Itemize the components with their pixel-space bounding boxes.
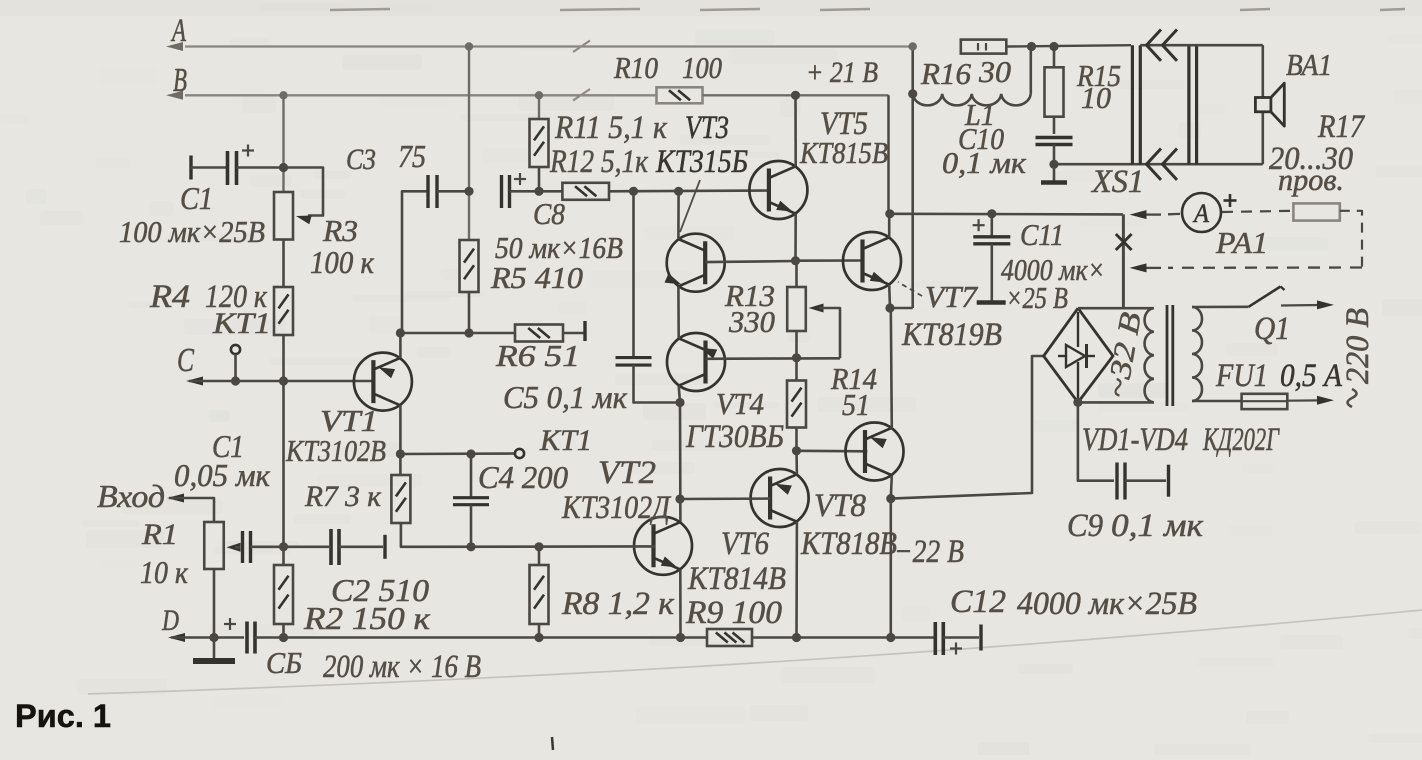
bottom -22V rail — [284, 636, 708, 639]
wire C line to VT1 base — [189, 380, 374, 383]
junction VT2 emitter rail — [676, 633, 685, 642]
svg-text:РА1: РА1 — [1215, 225, 1268, 260]
junction VT8 collector — [886, 494, 895, 503]
arrow R1 wiper — [227, 543, 241, 552]
junction line A drop x469 — [465, 42, 473, 50]
svg-text:0,1 мк: 0,1 мк — [1111, 508, 1204, 544]
wire input to R1 — [169, 498, 214, 522]
svg-text:С5 0,1 мк: С5 0,1 мк — [503, 379, 628, 415]
wire R2 bottom — [282, 624, 285, 638]
speaker BA1 horn — [1271, 83, 1284, 126]
plus of C8 — [514, 178, 526, 180]
junction bridge bottom — [1073, 398, 1082, 407]
wire -22 drop to rail — [889, 499, 892, 638]
wire C3 left drop — [402, 191, 428, 333]
wire VT6 emitter up — [795, 451, 798, 475]
pointer dash VT7 — [898, 282, 922, 296]
capacitor C3 plates — [426, 175, 429, 208]
svg-text:R2 150 к: R2 150 к — [303, 600, 431, 636]
svg-text:4000 мк×25В: 4000 мк×25В — [1017, 586, 1197, 622]
svg-text:R8 1,2 к: R8 1,2 к — [561, 586, 675, 622]
svg-text:VТ6: VТ6 — [721, 526, 769, 562]
plus PA1 — [1224, 199, 1237, 202]
potentiometer R1 box — [204, 522, 224, 569]
svg-text:С3: С3 — [346, 143, 376, 176]
resistor R9 box — [707, 629, 752, 646]
svg-text:+ 21 В: + 21 В — [806, 56, 878, 89]
wire primary top to switch — [1192, 305, 1249, 308]
wire R1 bottom — [213, 569, 216, 638]
arrow PA1 upper — [1130, 210, 1147, 219]
capacitor C1' 0,05 plates — [241, 531, 244, 563]
svg-text:100 к: 100 к — [310, 244, 375, 280]
junction C5/VT4 node — [675, 398, 684, 407]
terminal KT1 left circle — [231, 345, 240, 354]
capacitor C2 plates — [329, 529, 333, 565]
svg-text:КТ818В: КТ818В — [800, 526, 897, 562]
R16 inner ticks — [977, 43, 979, 51]
wire VT7 collector up — [888, 214, 891, 238]
junction x678 top — [674, 187, 683, 196]
wire secondary bottom — [1078, 401, 1154, 404]
junction C1/R3 node — [279, 163, 288, 172]
resistor R7 box — [391, 475, 410, 523]
wire VT8 emitter up — [891, 308, 892, 428]
wire R5 to emitter line — [468, 292, 471, 333]
svg-text:КТ3102В: КТ3102В — [285, 433, 386, 468]
svg-text:R9 100: R9 100 — [685, 595, 783, 631]
wire C10 bottom — [1053, 145, 1056, 165]
wire R7 to corner — [401, 523, 420, 547]
inductor L1 coil — [913, 94, 1031, 105]
wire VT8 collector down — [891, 475, 892, 498]
junction R13/R14/VT4base — [792, 353, 801, 362]
svg-text:R12 5,1к: R12 5,1к — [549, 144, 648, 180]
capacitor C10 plates — [1036, 136, 1073, 139]
transistor VT3 — [667, 234, 725, 292]
wire VT2 base line — [420, 545, 655, 548]
svg-text:R16: R16 — [920, 56, 972, 91]
svg-text:0,1 мк: 0,1 мк — [942, 145, 1027, 180]
svg-text:ВА1: ВА1 — [1286, 47, 1332, 82]
line B (feedback rail) — [185, 94, 656, 96]
junction VT6 base tap — [675, 494, 684, 503]
wire VT1 collector down — [399, 405, 402, 475]
svg-text:VТ2: VТ2 — [598, 455, 656, 491]
chevrons XS1 top — [1147, 30, 1162, 61]
bridge VD1-VD4 diamond — [1044, 308, 1113, 402]
junction VT1emitter/C3 — [396, 328, 405, 337]
small mark bottom center — [552, 737, 553, 750]
junction R15 top — [1049, 42, 1058, 51]
svg-text:51: 51 — [842, 387, 870, 422]
terminal bar C12 — [979, 625, 982, 651]
junction R1 bottom rail — [209, 633, 218, 642]
dashed link PA1 upper — [1168, 213, 1182, 216]
junction R8 rail — [534, 633, 543, 642]
wire C4 branch — [400, 452, 514, 455]
wire R13 wiper loop — [819, 308, 840, 358]
transistor VT1 — [354, 353, 412, 411]
wire D line — [171, 636, 244, 639]
transistor VT7 — [843, 232, 901, 290]
wire bridge bottom to C9 — [1078, 402, 1114, 480]
svg-text:R17: R17 — [1317, 109, 1365, 145]
wire VT5 emitter down — [794, 214, 797, 261]
svg-text:30: 30 — [978, 54, 1012, 89]
wire VT6 base from x680 — [680, 497, 770, 500]
svg-text:С11: С11 — [1020, 217, 1064, 252]
resistor R11 box — [530, 119, 549, 167]
capacitor SB plates — [245, 622, 249, 654]
svg-text:330: 330 — [728, 304, 775, 339]
junction C12 rail — [886, 633, 895, 642]
resistor R2 box — [274, 565, 293, 624]
resistor R6 box — [515, 325, 563, 342]
wire C5 stem — [632, 191, 635, 357]
junction VT5 collector on +21V rail — [791, 91, 800, 100]
svg-text:VТ4: VТ4 — [716, 386, 764, 421]
connector XS1 bars pair1 — [1131, 45, 1134, 164]
wire R11 bottom stub — [538, 167, 541, 191]
potentiometer R3 box — [274, 192, 293, 240]
wire VT6 collector down — [795, 522, 798, 638]
junction x283/C2 node — [279, 542, 288, 551]
resistor R17 box (dashed circuit) — [1293, 203, 1339, 220]
wire node to VT7 base — [796, 259, 863, 262]
wire VT7 emitter down — [888, 285, 891, 308]
wire +21V rail from R10 — [703, 94, 889, 96]
wire R15 to C10 — [1053, 117, 1056, 134]
transformer core bars — [1166, 305, 1169, 406]
svg-text:ГТ30ВБ: ГТ30ВБ — [685, 419, 784, 455]
transistor VT5 — [749, 161, 807, 219]
wire VT1 emitter up — [399, 333, 402, 358]
transistor VT2 — [634, 517, 692, 575]
wire R12 to VT5 base — [609, 189, 769, 192]
wire C12 right — [943, 636, 979, 639]
junction L1 tap — [908, 89, 917, 98]
svg-text:VТ8: VТ8 — [814, 488, 866, 524]
wire VT5 collector to +21V — [794, 95, 797, 166]
resistor R4 box — [274, 287, 293, 335]
junction C5 top — [629, 187, 638, 196]
wire R15 top stub — [1053, 47, 1056, 68]
wire VT8 collector to bridge minus — [891, 356, 1044, 499]
junction C11 top — [987, 209, 996, 218]
svg-text:100: 100 — [682, 50, 722, 85]
svg-text:С12: С12 — [950, 584, 1006, 620]
wire R13 top stub — [795, 261, 798, 287]
svg-text:R3: R3 — [322, 213, 358, 248]
junction VT5emitter/VT3base/R13 — [791, 256, 800, 265]
capacitor C11 stem top — [990, 214, 993, 236]
resistor R8 box — [530, 565, 549, 624]
wire C2 left — [284, 545, 332, 548]
terminal bar after R6 — [583, 321, 586, 341]
switch Q1 blade — [1249, 287, 1281, 307]
wire +21V drop to VT7 collector — [887, 95, 890, 214]
dashed link PA1 to R17 — [1222, 211, 1293, 212]
wire VT4 base line — [706, 357, 841, 360]
top edge scan smudges — [330, 9, 390, 10]
wire VT4 collector down — [679, 386, 680, 403]
wire column xA (line A down to output) — [911, 47, 914, 309]
scan crease curve bottom — [88, 610, 1422, 694]
svg-text:КТ815В: КТ815В — [799, 135, 888, 170]
junction C10 bottom — [1049, 160, 1058, 169]
wire X drop — [1122, 214, 1125, 308]
svg-text:Рис. 1: Рис. 1 — [15, 698, 111, 734]
dashed return to X — [1168, 266, 1362, 269]
ground bar R1 — [193, 658, 235, 664]
transistor VT8 — [846, 423, 904, 481]
wire C1 left — [191, 166, 228, 169]
capacitor C11 stem bottom — [990, 244, 993, 301]
wire KT1 stem — [234, 354, 237, 381]
transformer secondary winding — [1145, 308, 1154, 402]
svg-text:С: С — [177, 342, 194, 379]
svg-text:КТ1: КТ1 — [212, 307, 271, 340]
plus of C12 — [950, 647, 962, 649]
svg-text:А: А — [1192, 199, 1209, 228]
svg-text:75: 75 — [398, 138, 426, 174]
svg-text:VD1-VD4: VD1-VD4 — [1082, 422, 1188, 458]
bridge inner diode — [1077, 312, 1079, 347]
svg-text:С9: С9 — [1067, 508, 1103, 544]
junction R5/emitter line — [464, 328, 473, 337]
junction R2 rail — [279, 633, 288, 642]
resistor R15 box — [1045, 67, 1064, 116]
svg-text:×25 В: ×25 В — [1006, 280, 1068, 315]
wire A to R16 — [1006, 45, 1131, 46]
svg-text:КТ3102Д: КТ3102Д — [561, 490, 672, 526]
svg-text:R7 3 к: R7 3 к — [304, 480, 382, 513]
svg-text:КТ819В: КТ819В — [901, 317, 1002, 353]
connector XS1 bars pair2 — [1187, 45, 1190, 164]
wire x680 down to VT2 collector — [679, 403, 682, 522]
svg-text:10: 10 — [1081, 80, 1111, 115]
pointer line VT3 label — [680, 180, 700, 232]
capacitor C5 plates — [616, 356, 652, 359]
wire bridge top to X column — [1078, 307, 1154, 310]
svg-text:FU1: FU1 — [1215, 358, 1268, 394]
wire wiper to C1' — [235, 546, 241, 549]
wire C1 right — [237, 166, 284, 169]
wire column x283 C-line to C2 node — [282, 381, 285, 565]
svg-text:Вход: Вход — [97, 478, 165, 514]
resistor R12 box — [562, 183, 609, 200]
junction R14/VT6emitter/VT8base — [792, 446, 801, 455]
junction R11 bottom — [534, 187, 543, 196]
svg-text:D: D — [161, 604, 179, 637]
speaker top line — [1140, 44, 1263, 47]
junction R4/C-line — [279, 376, 288, 385]
junction x796 rail — [792, 633, 801, 642]
direction tick on line A — [573, 41, 590, 53]
chassis stub C10 — [1053, 164, 1056, 181]
capacitor C1 100mk plates — [226, 151, 230, 185]
arrow line B — [166, 91, 183, 100]
wire R3-R4 — [282, 240, 285, 288]
terminal bar C9 — [1167, 465, 1170, 497]
svg-text:КД202Г: КД202Г — [1202, 422, 1280, 458]
svg-text:С8: С8 — [533, 196, 565, 231]
svg-text:200 мк × 16 В: 200 мк × 16 В — [323, 649, 481, 685]
junction C4 bottom — [466, 542, 475, 551]
plus of C11 — [973, 224, 985, 226]
svg-text:50 мк×16В: 50 мк×16В — [495, 230, 623, 265]
svg-text:220 В: 220 В — [1340, 308, 1376, 384]
junction R11 top on B rail — [535, 91, 543, 99]
svg-text:С4 200: С4 200 — [478, 459, 568, 495]
wire R8 stubs — [538, 547, 541, 565]
junction R8 top — [534, 542, 543, 551]
arrow node C — [186, 377, 203, 386]
svg-text:пров.: пров. — [1278, 162, 1344, 197]
arrow R3 wiper — [296, 216, 312, 225]
svg-text:R10: R10 — [613, 50, 658, 85]
wire C1' to node — [251, 545, 284, 548]
wire VT1 emitter line — [400, 332, 515, 335]
speaker bottom line — [1054, 163, 1263, 166]
wire R4 to C line — [282, 335, 285, 381]
resistor R10 box — [657, 87, 703, 103]
svg-text:КТ1: КТ1 — [539, 424, 592, 457]
junction line A right — [909, 42, 917, 50]
plus of C1 — [242, 149, 254, 151]
terminal KT1 center circle — [515, 449, 524, 458]
speaker BA1 feed wires — [1262, 45, 1265, 97]
svg-text:Q1: Q1 — [1254, 311, 1290, 347]
direction tick on line B — [573, 89, 590, 101]
svg-text:VТ3: VТ3 — [685, 110, 729, 146]
ground stem R1 — [213, 638, 216, 661]
transformer primary winding — [1192, 307, 1202, 401]
ammeter PA1 circle — [1182, 193, 1221, 232]
svg-text:10 к: 10 к — [140, 554, 189, 590]
capacitor C12 plates — [933, 622, 937, 655]
wire C4 stem top — [470, 454, 473, 498]
wire R3 wiper feed — [284, 168, 324, 216]
capacitor C11 plates — [973, 235, 1010, 238]
wire R14 bottom stub — [795, 428, 798, 451]
svg-text:СБ: СБ — [266, 645, 302, 680]
arrow PA1 lower — [1130, 263, 1147, 272]
wire primary bottom to fuse — [1192, 400, 1242, 403]
svg-text:R5 410: R5 410 — [490, 260, 584, 295]
resistor R14 box — [787, 381, 806, 428]
resistor R16 box — [961, 40, 1007, 54]
capacitor C8 plates — [500, 175, 503, 208]
svg-text:100 мк×25В: 100 мк×25В — [119, 214, 265, 249]
svg-text:VТ7: VТ7 — [925, 279, 978, 314]
plus of SB — [224, 623, 236, 625]
svg-text:0,5 А: 0,5 А — [1280, 358, 1343, 394]
wire mains top with arrow — [1281, 304, 1320, 307]
+21V line to rectifier — [889, 213, 1124, 216]
wire C4 stem bottom — [470, 505, 473, 547]
wire node to VT8 base — [797, 449, 868, 452]
transistor VT6 — [751, 469, 809, 527]
arrow R13 wiper — [809, 304, 824, 313]
svg-text:XS1: XS1 — [1090, 164, 1144, 200]
X disconnect mark — [1116, 234, 1132, 250]
wire C9 right — [1125, 479, 1166, 482]
wire x469 from line A down — [468, 47, 470, 241]
svg-text:−22 В: −22 В — [894, 534, 964, 570]
wire VT2 emitter down — [679, 570, 682, 638]
terminal bar after C2 — [383, 535, 386, 559]
speaker BA1 box — [1255, 98, 1271, 112]
svg-text:С1: С1 — [180, 180, 213, 216]
wire output link to xA column — [890, 307, 913, 310]
wire R13 bottom stub — [795, 331, 798, 358]
wire C3 right — [437, 190, 469, 193]
junction B rail x283 — [279, 91, 287, 99]
capacitor C9 plates — [1115, 463, 1118, 500]
arrow node D — [168, 633, 185, 642]
fuse FU1 box — [1242, 394, 1288, 409]
wire VT3 collector up — [677, 191, 680, 239]
junction C3/C8/R5 node — [464, 187, 473, 196]
potentiometer R13 box — [787, 287, 806, 331]
chevrons XS1 bottom — [1147, 149, 1162, 180]
svg-text:R6 51: R6 51 — [495, 338, 580, 373]
chassis bar C11 — [977, 300, 1006, 305]
wire C8 right — [510, 190, 563, 193]
wire L1 right up — [1030, 47, 1033, 94]
wire R11 top stub — [538, 95, 540, 119]
chassis bar C10 — [1041, 180, 1067, 185]
wire mains bottom with arrow — [1287, 399, 1320, 402]
capacitor C1 terminal bar — [189, 156, 192, 180]
resistor R5 box — [460, 240, 479, 292]
arrow line A — [166, 42, 183, 51]
line A (output rail to speaker) — [185, 45, 911, 47]
transistor VT4 — [667, 333, 725, 391]
svg-text:КТ814В: КТ814В — [687, 561, 786, 597]
svg-text:КТ315Б: КТ315Б — [655, 144, 748, 180]
wire rail right of R9 — [752, 636, 936, 639]
wire R6 right — [563, 332, 585, 335]
junction output node VT7emitter — [885, 303, 894, 312]
junction KT1 stem — [231, 376, 240, 385]
wire C2 right — [339, 545, 383, 548]
wire column x283 from B to C1 node — [282, 95, 284, 192]
junction C4 branch line — [396, 449, 405, 458]
svg-text:R1: R1 — [141, 518, 178, 551]
junction C4 top — [466, 449, 475, 458]
svg-text:R4: R4 — [149, 279, 190, 315]
arrow input — [167, 494, 184, 503]
wire VT3 emitter to VT4 emitter — [677, 286, 680, 338]
svg-text:R11 5,1 к: R11 5,1 к — [554, 110, 667, 146]
junction VT7 collector on +21 line — [885, 209, 894, 218]
svg-text:0,05 мк: 0,05 мк — [174, 457, 271, 493]
wire C5 bottom — [634, 365, 681, 403]
wire VT3 base to node — [705, 261, 795, 262]
wire SB right — [255, 636, 284, 639]
junction R16 right — [1027, 42, 1036, 51]
capacitor C4 plates — [453, 496, 489, 499]
dashed corner R17 — [1340, 211, 1362, 268]
wire R14 top stub — [795, 358, 798, 380]
